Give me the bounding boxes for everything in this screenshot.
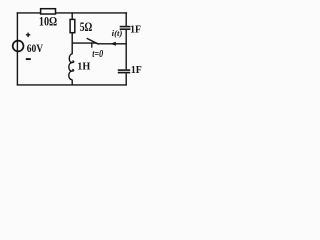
svg-text:5Ω: 5Ω [80, 19, 93, 34]
svg-text:60V: 60V [27, 41, 44, 55]
svg-text:1H: 1H [77, 61, 90, 73]
svg-text:t=0: t=0 [92, 49, 103, 60]
svg-text:1F: 1F [130, 24, 141, 35]
svg-text:1F: 1F [131, 65, 142, 76]
svg-text:10Ω: 10Ω [39, 15, 57, 29]
svg-text:i(t): i(t) [112, 29, 123, 38]
